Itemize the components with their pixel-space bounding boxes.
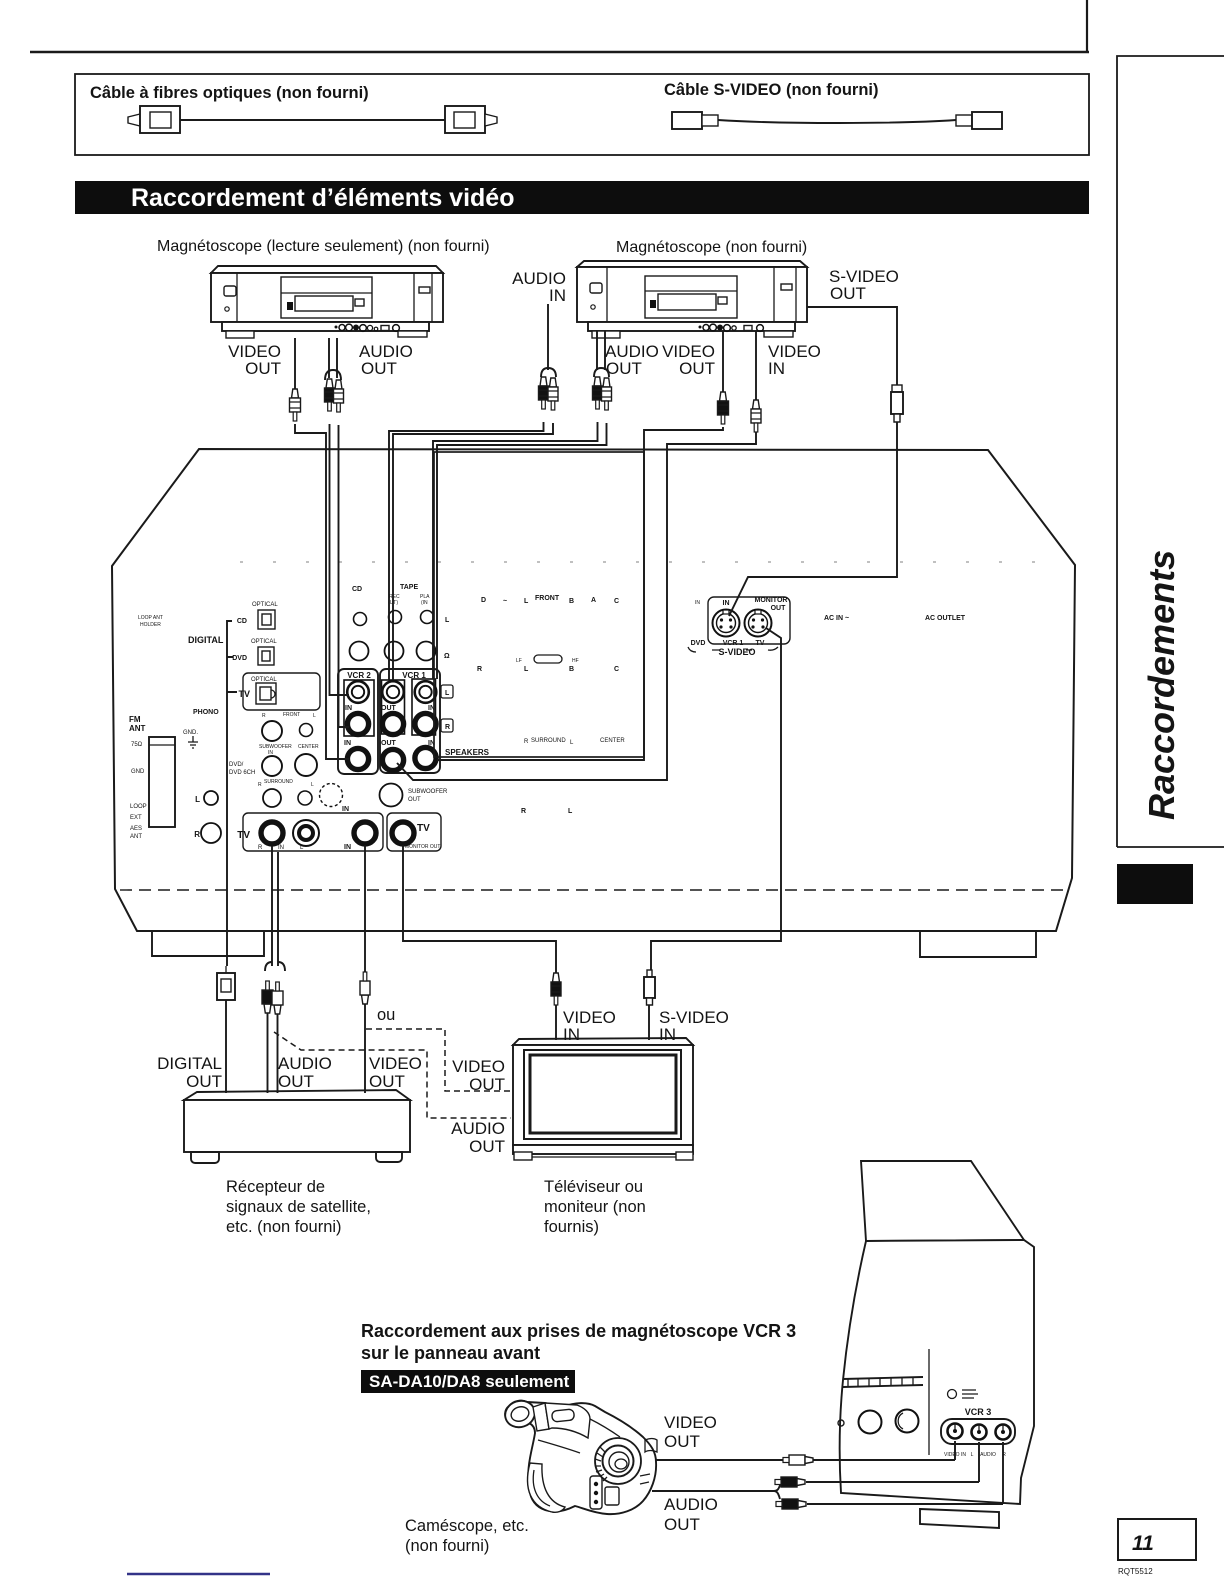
svg-text:L: L [313, 713, 316, 719]
svg-text:IN: IN [659, 1025, 676, 1044]
label S-VIDEO OUT (right VCR) [829, 267, 899, 303]
svg-text:A: A [591, 597, 596, 604]
label VIDEO IN (TV) [563, 1008, 616, 1044]
svg-text:TAPE: TAPE [400, 584, 418, 591]
svg-text:L: L [445, 690, 450, 697]
svg-text:OUT: OUT [664, 1432, 700, 1451]
svg-text:TV: TV [238, 689, 250, 699]
FRONT jacks row [262, 712, 316, 741]
wire audio out camcorder [652, 1442, 1003, 1509]
svg-text:SURROUND: SURROUND [531, 738, 566, 744]
PHONO label [193, 709, 219, 716]
svg-text:IN: IN [344, 844, 351, 851]
svg-text:VIDEO: VIDEO [452, 1057, 505, 1076]
front panel foot [920, 1509, 999, 1528]
label AUDIO OUT (TV side) [451, 1119, 505, 1156]
label VIDEO OUT (TV side) [452, 1057, 505, 1094]
svg-text:B: B [569, 598, 574, 605]
svg-text:IN: IN [563, 1025, 580, 1044]
svg-text:OUT: OUT [679, 359, 715, 378]
label VIDEO OUT (satellite) [369, 1054, 422, 1091]
svg-text:LF: LF [516, 658, 522, 664]
svg-text:FM: FM [129, 715, 141, 724]
AC labels [824, 615, 966, 622]
svg-text:DVD: DVD [691, 640, 706, 647]
SUBWOOFER IN / CENTER row [259, 744, 319, 776]
svg-text:R: R [524, 739, 529, 745]
svg-text:moniteur (non: moniteur (non [544, 1198, 646, 1216]
s-video jack group [688, 597, 790, 657]
wire video out camcorder [655, 1441, 955, 1465]
svg-text:ou: ou [377, 1006, 395, 1024]
svg-text:CENTER: CENTER [600, 738, 625, 744]
digital bracket + wire to satellite [227, 621, 237, 966]
camcorder [502, 1397, 657, 1514]
svg-text:(IN: (IN [421, 600, 428, 606]
wire video out right VCR [437, 331, 729, 760]
VCR left bottom tray [222, 322, 429, 338]
svg-text:GND.: GND. [183, 730, 198, 736]
svg-text:Ω: Ω [444, 653, 450, 660]
svg-text:~: ~ [503, 598, 507, 605]
svg-text:C: C [614, 666, 619, 673]
aux R jack [194, 823, 221, 843]
svg-text:Raccordements: Raccordements [1141, 550, 1182, 820]
satellite receiver box [184, 1090, 410, 1163]
svg-text:fournis): fournis) [544, 1218, 599, 1236]
VCR 3 jack plate [941, 1419, 1015, 1444]
svg-text:OUT: OUT [606, 359, 642, 378]
wire monitor-out video to TV [403, 845, 561, 1040]
svg-text:SURROUND: SURROUND [264, 779, 293, 785]
label AUDIO OUT (camcorder) [664, 1495, 718, 1534]
top rule [30, 51, 1089, 54]
svg-text:GND: GND [131, 769, 145, 775]
svg-text:L: L [524, 666, 529, 673]
panel right foot [920, 931, 1036, 957]
svg-text:SPEAKERS: SPEAKERS [445, 748, 490, 757]
front panel face [840, 1240, 1034, 1504]
caption TV [544, 1178, 646, 1236]
svg-text:signaux de satellite,: signaux de satellite, [226, 1198, 371, 1216]
front panel knobs [838, 1410, 919, 1434]
svg-text:OPTICAL: OPTICAL [251, 639, 277, 645]
VCR 1 jack group [380, 669, 440, 773]
FM ANT labels [129, 715, 198, 736]
svg-text:OUT: OUT [381, 740, 397, 747]
CD TAPE jacks row1 [354, 611, 434, 626]
svg-text:R: R [262, 713, 266, 719]
svg-text:OUT: OUT [278, 1072, 314, 1091]
dashed link video [366, 1029, 511, 1091]
svg-text:IN: IN [345, 705, 352, 712]
DVD 6CH labels [229, 762, 255, 776]
optical TV jack group [238, 673, 320, 710]
svg-text:OUT: OUT [408, 797, 421, 803]
wire video in right VCR [397, 331, 761, 780]
page number box [1118, 1519, 1196, 1576]
svg-text:IN: IN [695, 600, 700, 606]
wire audio out left VCR (pair) [325, 338, 350, 727]
svg-text:IN: IN [342, 806, 349, 813]
dashed link audio [274, 1032, 511, 1118]
svg-text:CD: CD [352, 586, 362, 593]
svg-text:SA-DA10/DA8 seulement: SA-DA10/DA8 seulement [369, 1372, 570, 1391]
svg-text:HF: HF [572, 658, 579, 664]
svg-text:OPTICAL: OPTICAL [252, 602, 278, 608]
TV set [513, 1038, 693, 1160]
svg-text:R: R [258, 845, 263, 851]
svg-text:S-VIDEO: S-VIDEO [718, 647, 755, 657]
VCR right bottom tray [588, 322, 795, 338]
svg-text:LOOP ANT: LOOP ANT [138, 615, 163, 621]
svg-text:DVD 6CH: DVD 6CH [229, 770, 255, 776]
subwoofer out jacks [320, 784, 449, 807]
svg-text:75Ω: 75Ω [131, 742, 143, 748]
svg-text:OUT: OUT [664, 1515, 700, 1534]
svg-text:Téléviseur ou: Téléviseur ou [544, 1178, 643, 1196]
svg-text:DIGITAL: DIGITAL [188, 635, 224, 645]
svg-text:RQT5512: RQT5512 [1118, 1567, 1153, 1576]
svg-text:TV: TV [756, 640, 765, 647]
VCR right body [577, 261, 807, 322]
front panel top face [861, 1161, 1024, 1241]
svg-text:VIDEO: VIDEO [369, 1054, 422, 1073]
wire video out left VCR [290, 338, 350, 759]
label AUDIO IN (right VCR) [512, 269, 566, 305]
svg-text:OPTICAL: OPTICAL [251, 677, 277, 683]
svg-text:L: L [524, 598, 529, 605]
CD TAPE jacks row2 [350, 642, 436, 661]
wire TV video-in to satellite [360, 845, 370, 1093]
VCR 2 jack group [338, 669, 378, 774]
heading VCR3 [361, 1321, 796, 1363]
svg-text:CENTER: CENTER [298, 744, 319, 750]
svg-text:ANT: ANT [130, 834, 142, 840]
svg-text:PHONO: PHONO [193, 709, 219, 716]
optical CD jack [237, 602, 278, 629]
svg-text:LOOP: LOOP [130, 804, 147, 810]
svg-text:ANT: ANT [129, 724, 146, 733]
svg-text:AUDIO: AUDIO [278, 1054, 332, 1073]
label AUDIO OUT (left VCR) [359, 342, 413, 378]
panel seam dashed lines [120, 562, 1066, 890]
svg-text:OUT: OUT [369, 1072, 405, 1091]
svg-text:Magnétoscope (lecture seulemen: Magnétoscope (lecture seulement) (non fo… [157, 238, 490, 255]
VCR 3 jack labels [944, 1452, 1006, 1458]
sidebar black tab [1117, 864, 1193, 904]
svg-text:R: R [477, 666, 482, 673]
svg-text:(non fourni): (non fourni) [405, 1537, 489, 1555]
svg-text:AUDIO: AUDIO [451, 1119, 505, 1138]
badge SA-DA10/DA8 [361, 1370, 575, 1393]
svg-text:B: B [569, 666, 574, 673]
front panel logo marks [948, 1390, 979, 1399]
svg-text:MONITOR: MONITOR [755, 597, 788, 604]
footer blue line [127, 1573, 270, 1575]
cables box [75, 74, 1089, 155]
svg-text:AC OUTLET: AC OUTLET [925, 615, 966, 622]
svg-text:D: D [481, 597, 486, 604]
wire audio out right VCR (pair) [433, 331, 612, 679]
svg-text:AUDIO: AUDIO [980, 1452, 996, 1458]
svg-text:L: L [311, 782, 314, 788]
SURROUND row [258, 779, 314, 807]
speaker letters below block [521, 808, 573, 815]
optical cable label [90, 84, 369, 102]
svg-text:Caméscope, etc.: Caméscope, etc. [405, 1517, 529, 1535]
VCR right (Magnetoscope) label [616, 239, 807, 256]
svg-text:AUDIO: AUDIO [664, 1495, 718, 1514]
LOOP ANT HOLDER text [138, 615, 163, 628]
TV audio-video in group [237, 806, 383, 851]
CD TAPE labels [352, 584, 430, 606]
ground symbol [188, 736, 198, 748]
page corner line [1086, 0, 1088, 52]
label S-VIDEO IN (TV) [659, 1008, 729, 1044]
svg-text:Câble à fibres optiques (non f: Câble à fibres optiques (non fourni) [90, 84, 369, 102]
svg-text:OUT: OUT [830, 284, 866, 303]
left tiny labels [130, 742, 147, 840]
wire s-video out right VCR [729, 307, 903, 616]
label DIGITAL OUT [157, 1054, 222, 1091]
svg-text:SUBWOOFER: SUBWOOFER [259, 744, 292, 750]
wire audio in right VCR (pair) [389, 304, 558, 680]
caption camcorder [405, 1517, 529, 1555]
label VIDEO OUT (camcorder) [664, 1413, 717, 1451]
svg-text:IN: IN [549, 286, 566, 305]
section header bar [75, 181, 1089, 214]
label AUDIO OUT (satellite) [278, 1054, 332, 1091]
svg-text:Raccordement aux prises de mag: Raccordement aux prises de magnétoscope … [361, 1321, 796, 1341]
svg-text:OUT: OUT [361, 359, 397, 378]
svg-text:VCR 3: VCR 3 [965, 1407, 992, 1417]
svg-text:OUT: OUT [771, 605, 787, 612]
FM antenna terminal [149, 737, 175, 827]
svg-text:L: L [445, 617, 450, 624]
svg-text:L: L [568, 808, 573, 815]
svg-text:IN: IN [278, 845, 284, 851]
svg-text:TV: TV [237, 830, 250, 841]
svg-text:L: L [971, 1452, 974, 1458]
svg-text:VCR 2: VCR 2 [347, 671, 371, 680]
svg-text:VCR 1: VCR 1 [723, 640, 744, 647]
sidebar box [1117, 56, 1224, 847]
aux L jack [195, 791, 218, 805]
svg-text:FRONT: FRONT [535, 595, 560, 602]
svg-text:CD: CD [237, 618, 247, 625]
VCR left (Magnetoscope lecture seulement) label [157, 238, 490, 255]
svg-text:Câble S-VIDEO (non fourni): Câble S-VIDEO (non fourni) [664, 81, 879, 99]
svg-text:IN: IN [723, 600, 730, 607]
svg-text:SUBWOOFER: SUBWOOFER [408, 789, 448, 795]
svg-text:EXT: EXT [130, 815, 142, 821]
svg-text:AES: AES [130, 826, 142, 832]
SPEAKERS label [445, 748, 490, 757]
label VIDEO OUT (left VCR) [228, 342, 281, 378]
svg-text:TV: TV [417, 823, 430, 834]
svg-text:DVD: DVD [232, 655, 247, 662]
panel left foot [152, 931, 264, 956]
svg-text:R: R [194, 830, 200, 839]
VCR 3 label [965, 1407, 992, 1417]
ou label [377, 1006, 395, 1024]
receiver back panel outline [112, 449, 1075, 931]
svg-text:DVD/: DVD/ [229, 762, 244, 768]
svg-text:AC IN ~: AC IN ~ [824, 615, 849, 622]
TV monitor out group [387, 813, 441, 851]
wire monitor-out s-video to TV [644, 628, 781, 1040]
svg-text:etc. (non fourni): etc. (non fourni) [226, 1218, 342, 1236]
svg-text:R: R [258, 782, 262, 788]
svg-text:R: R [445, 724, 450, 731]
svg-text:OUT: OUT [245, 359, 281, 378]
s-video cable label [664, 81, 879, 99]
DIGITAL label [188, 635, 224, 645]
svg-text:Récepteur de: Récepteur de [226, 1178, 325, 1196]
svg-text:VIDEO: VIDEO [664, 1413, 717, 1432]
caption satellite [226, 1178, 371, 1236]
svg-text:IN: IN [768, 359, 785, 378]
svg-text:11: 11 [1132, 1532, 1154, 1555]
svg-text:OUT: OUT [469, 1137, 505, 1156]
svg-text:OUT: OUT [186, 1072, 222, 1091]
wire TV audio to satellite [262, 846, 285, 1093]
VCR left body [211, 266, 443, 322]
labels under right VCR [605, 342, 659, 378]
s-video cable [672, 112, 1002, 129]
svg-text:Raccordement d’éléments vidéo: Raccordement d’éléments vidéo [131, 184, 514, 212]
svg-text:HOLDER: HOLDER [140, 622, 161, 628]
svg-text:DIGITAL: DIGITAL [157, 1054, 222, 1073]
svg-text:IN: IN [344, 740, 351, 747]
svg-text:sur le panneau avant: sur le panneau avant [361, 1343, 540, 1363]
sidebar title Raccordements [1141, 550, 1182, 820]
svg-text:C: C [614, 598, 619, 605]
speaker terminal block [434, 452, 644, 757]
digital optical plug [217, 966, 235, 1093]
optical cable [128, 106, 497, 133]
svg-text:MONITOR OUT: MONITOR OUT [405, 844, 440, 850]
svg-text:R: R [521, 808, 526, 815]
front panel display band [843, 1349, 929, 1455]
svg-text:FRONT: FRONT [283, 712, 300, 718]
svg-text:L: L [195, 795, 200, 804]
optical DVD jack [232, 639, 277, 665]
svg-text:Magnétoscope (non fourni): Magnétoscope (non fourni) [616, 239, 807, 256]
